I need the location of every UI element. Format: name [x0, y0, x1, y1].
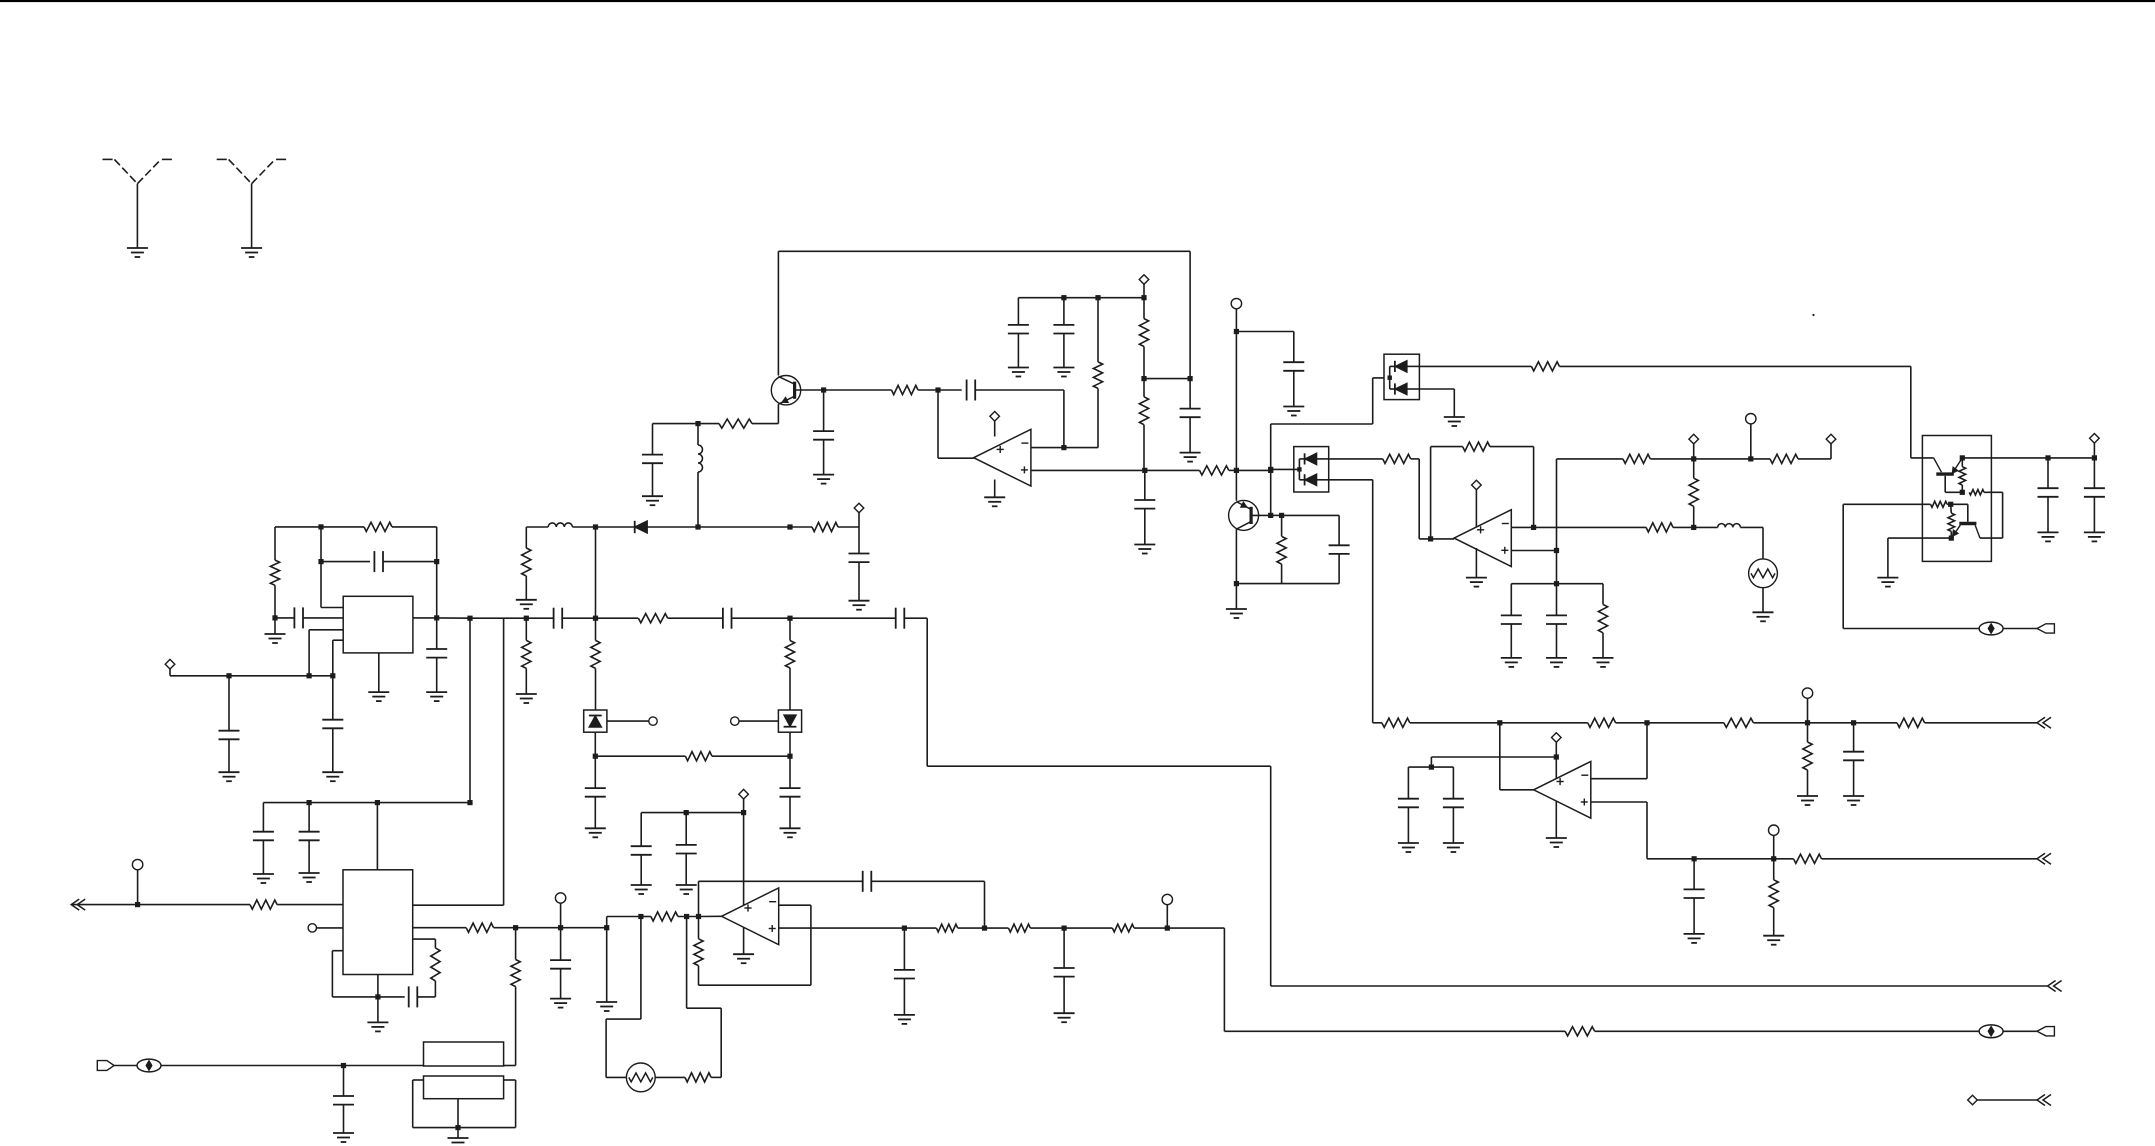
wire 618 seg7 [904, 617, 927, 619]
wire line1 s8 [1854, 722, 1897, 724]
wire u4 top left [275, 526, 321, 528]
junction node U2m [1531, 525, 1536, 530]
wire R790 bot [789, 668, 791, 710]
wire U2p down [1556, 551, 1558, 584]
wire R-RT right [711, 1076, 721, 1078]
IC U7 [343, 870, 413, 975]
wire U1m right [1064, 447, 1098, 449]
wire 470 seg3 [1236, 469, 1270, 471]
wire y424 [1271, 423, 1373, 425]
ground GND-297b [1053, 367, 1074, 369]
ground GND-RT2 [1753, 611, 1774, 613]
wire CL2 top [1693, 859, 1695, 890]
wire u4 top seg [321, 526, 364, 528]
wire TPL2 stem [1773, 835, 1775, 858]
wire 618 seg5 [732, 617, 791, 619]
ground GND-675b [322, 771, 343, 773]
capacitor C-U4c [426, 648, 447, 650]
node flag V-OUT [2090, 434, 2100, 444]
ground GND-812b [676, 884, 697, 886]
wire VD1 bot [594, 732, 596, 756]
resistor R3 [812, 522, 838, 531]
junction node xin [341, 1063, 346, 1068]
wire R-fb1 up [1097, 298, 1099, 362]
junction node 470-1270 [1268, 468, 1273, 473]
ground GND-812a [631, 884, 652, 886]
wire TP927 stem [560, 903, 562, 928]
wire vert 1270 [1270, 424, 1272, 515]
wire U6m bot [699, 984, 811, 986]
wire TP928 stem [1166, 905, 1168, 928]
junction node OUT2 [2092, 455, 2097, 460]
wire C-Q2 top [1338, 515, 1340, 545]
wire 812 drop2 [685, 813, 687, 845]
wire u4 right vert [436, 527, 438, 618]
wire 756 rdrop [789, 756, 791, 788]
wire divider top [1143, 298, 1145, 319]
junction node 675-229 [226, 673, 231, 678]
wire in927 s2 [494, 927, 607, 929]
terminal TP-L1 [1802, 688, 1812, 698]
resistor R-L2 [1794, 854, 1822, 863]
wire U2 gnd stem [1475, 548, 1477, 578]
wire L-E1 down [697, 472, 699, 527]
wire Q2c rail [1236, 583, 1339, 585]
wire line1 s9 [1925, 722, 2037, 724]
capacitor C-E1 [642, 454, 663, 456]
capacitor C-Q2 [1329, 544, 1350, 546]
wire C802b gnd [308, 840, 310, 873]
resistor R-470 [1200, 466, 1229, 475]
junction node u4tl [318, 524, 323, 529]
wire C-Q1 to gnd [823, 440, 825, 475]
wire in seg [678, 916, 699, 918]
ground GND-927 [550, 998, 571, 1000]
wire line4 s2 [1595, 1030, 1979, 1032]
wire 928 seg6 [1134, 927, 1224, 929]
wire emitter left [752, 423, 778, 425]
ground GND-331 [1283, 406, 1304, 408]
junction node Q2b2 [1279, 513, 1284, 518]
boxed diode VD1 [584, 710, 607, 732]
resistor R-L1d [1897, 718, 1925, 727]
resistor R-526b [522, 640, 531, 668]
wire 583 right drop [1602, 584, 1604, 605]
wire line4 s1 [1224, 1030, 1565, 1032]
ground GND-U6 [733, 953, 754, 955]
wire cap561 r [383, 561, 437, 563]
junction node 331 [1234, 329, 1239, 334]
resistor R-595 [591, 640, 600, 668]
ground GND-767a [1398, 842, 1419, 844]
wire N1 down [937, 390, 939, 458]
capacitor C-812b [676, 844, 697, 846]
wire top rail down [1189, 251, 1191, 378]
ground GND-L1a [1797, 795, 1818, 797]
wire rail996 [332, 996, 404, 998]
junction node U6in2 [638, 914, 643, 919]
junction node D1j [593, 524, 598, 529]
resistor R-1693 [1689, 478, 1698, 506]
wire rail297 drop2 [1063, 298, 1065, 325]
node flag VT1 [854, 503, 864, 513]
capacitor C-812a [631, 845, 652, 847]
wire to node N1 [918, 389, 938, 391]
junction node 1190 [1188, 376, 1193, 381]
capacitor C-927 [550, 959, 571, 961]
wire therm drop [1762, 527, 1764, 559]
node flag V-L5 [1968, 1095, 1978, 1105]
capacitor C583a [1501, 614, 1522, 616]
wire C812b gnd [685, 854, 687, 886]
wire divm right [1144, 378, 1190, 380]
ground GND-Q4 [1877, 577, 1898, 579]
wire C756b gnd [789, 797, 791, 829]
wire y366 long [1559, 365, 1910, 367]
capacitor C-U4b [293, 607, 295, 628]
wire 757 down [1430, 757, 1432, 767]
capacitor C-X1 [333, 1095, 354, 1097]
junction node 927-606 [604, 925, 609, 930]
wire u7 out1 [413, 904, 504, 906]
ground GND-ANT2 [241, 247, 262, 249]
wire 812 ldrop [640, 813, 642, 847]
terminal TP-927 [555, 893, 565, 903]
wire 790 r top [789, 618, 791, 640]
wire corner 526 down [525, 527, 527, 548]
wire vert 1372 up [1372, 378, 1374, 424]
wire C583b gnd [1556, 624, 1558, 658]
wire U1 plus [1031, 469, 1145, 471]
junction node u4in [272, 615, 277, 620]
ground GND-297a [1008, 367, 1029, 369]
capacitor C767a [1398, 798, 1419, 800]
wire u4out right [437, 617, 470, 619]
wire 618 seg4 [668, 617, 723, 619]
junction node y1g [455, 1125, 460, 1130]
resistor R-fb1 [1093, 362, 1102, 389]
capacitor C-OUT2 [2084, 487, 2105, 489]
wire R-1693 top [1693, 459, 1695, 478]
ground GND-U4b [368, 691, 389, 693]
wire TP459 stem [1750, 424, 1752, 459]
wire R-Q1e left [698, 423, 719, 425]
wire 927 down [926, 618, 928, 766]
ground GND-L2b [1763, 935, 1784, 937]
wire P1 to plug [2003, 628, 2037, 630]
op-amp U3 [1534, 761, 1591, 818]
resistor R-515 [511, 960, 520, 987]
resistor R-459b [1770, 454, 1798, 463]
wire U2 out [1419, 538, 1454, 540]
resistor R-526 [522, 548, 531, 576]
node flag V297 [1139, 275, 1149, 285]
wire U3 minus [1591, 778, 1647, 780]
wire loopB up [720, 1008, 722, 1077]
wire R-583 gnd [1602, 633, 1604, 658]
wire DD1 bot gnd [1453, 389, 1455, 417]
capacitor C-U4a [373, 551, 375, 572]
wire in seg3 [607, 916, 641, 918]
wire VOUT stem [2093, 443, 2095, 458]
resistor R-L1e [1803, 742, 1812, 770]
wire Cout2 gnd [2093, 497, 2095, 533]
wire pair out [1962, 457, 2048, 459]
wire rail802 [263, 802, 470, 804]
node flag V459a [1689, 434, 1699, 444]
terminal small U7 [308, 924, 316, 932]
wire 515 drop [515, 928, 517, 960]
wire C-E1 gnd [652, 463, 654, 496]
wire V675 stem [169, 669, 171, 676]
wire CX1 gnd [343, 1105, 345, 1133]
wire C527 gnd [858, 562, 860, 601]
junction node L1a [1497, 720, 1502, 725]
resistor R-Q4b [1931, 501, 1948, 507]
wire 996 right [417, 996, 435, 998]
ground GND-L1b [1843, 795, 1864, 797]
wire rail767 [1408, 766, 1453, 768]
dual diode DD2 [1294, 447, 1329, 492]
wire line2 s3 [1774, 858, 1794, 860]
wire D1a to R3 [698, 526, 790, 528]
wire RT to R [655, 1076, 685, 1078]
wire 606 gnd drop [606, 928, 608, 1002]
wire RQ3 top [1961, 458, 1963, 467]
wire C928a top [903, 928, 905, 970]
ground GND-526 [516, 599, 537, 601]
wire TPL1 stem [1807, 698, 1809, 723]
ground GND-756a [585, 827, 606, 829]
wire u7b gnd [377, 997, 379, 1023]
wire rail583 [1511, 583, 1603, 585]
junction node L1c [1805, 720, 1810, 725]
capacitor C297a [1008, 324, 1029, 326]
transistor Q2 [1229, 500, 1259, 530]
ground GND-U1 [984, 496, 1005, 498]
wire U6 in [699, 915, 722, 917]
wire RQ3 bot [1961, 485, 1963, 492]
wire R595 bot [595, 668, 597, 710]
wire 904 s3 [277, 904, 343, 906]
wire DD1 bot out [1419, 388, 1454, 390]
ground GND-802a [253, 873, 274, 875]
wire 470 seg2 [1229, 469, 1237, 471]
wire 675 drop1 [228, 676, 230, 731]
ground GND-928a [894, 1014, 915, 1016]
wire 527 to 618 link [595, 527, 597, 618]
wire RU7 bot [434, 981, 436, 997]
junction node 802-377 [375, 800, 380, 805]
node flag V-675 [165, 659, 175, 669]
junction node 904 [135, 902, 140, 907]
junction node Q4b [1948, 502, 1953, 507]
terminal TP-Q2 [1231, 298, 1241, 308]
junction node Q4e [1949, 536, 1954, 541]
terminal TP-904 [132, 859, 142, 869]
wire 1270 down [1270, 766, 1272, 986]
wire VT1 down [858, 527, 860, 554]
ground GND-E1 [642, 495, 663, 497]
wire fb2 seg [1431, 446, 1463, 448]
terminal TP-928 [1162, 894, 1172, 904]
junction node DD2L [1268, 467, 1273, 472]
wire 583 left drop [1510, 584, 1512, 616]
wire 904 s2 [138, 904, 250, 906]
inline connector P2 [1979, 1025, 2003, 1038]
wire E1 left [653, 423, 699, 425]
junction node L2a [1692, 856, 1697, 861]
wire y766 [927, 765, 1270, 767]
resistor R-Q1b [892, 385, 919, 394]
wire to C-Q1 [823, 390, 825, 431]
ground GND-527 [849, 600, 870, 602]
wire 470 seg [1145, 469, 1200, 471]
junction node E1 [695, 421, 700, 426]
wire C297b gnd [1063, 334, 1065, 368]
wire U6 gnd stem [743, 927, 745, 954]
junction node Q2b [1268, 513, 1273, 518]
node flag V-U1 [990, 412, 1000, 422]
wire line2 s2 [1694, 858, 1774, 860]
wire 527b seg2 [1694, 526, 1718, 528]
junction node OUT1 [2045, 455, 2050, 460]
wire E1 cap drop [652, 424, 654, 455]
resistor R-Q1e [719, 419, 752, 428]
junction node 675-332 [330, 673, 335, 678]
resistor R-RT [685, 1073, 711, 1082]
wire y366 down [1910, 366, 1912, 458]
wire TP stem [1235, 309, 1237, 332]
wire xin s3 [344, 1065, 424, 1067]
wire 503 up [503, 618, 505, 905]
wire u4 gnd pin [378, 653, 380, 692]
wire Cout2 top [2093, 458, 2095, 488]
junction node VU3 [1554, 754, 1559, 759]
junction node U6v1 [684, 914, 689, 919]
ground GND-583b [1546, 657, 1567, 659]
wire fb top2 [871, 880, 984, 882]
terminal TP-L2 [1769, 825, 1779, 835]
wire loopB up2 [686, 917, 688, 1009]
wire Q4 base stub [1967, 504, 1969, 522]
wire Q3 base wire [1945, 491, 1962, 493]
ground GND-X1 [333, 1132, 354, 1134]
capacitor C-OUT1 [2038, 487, 2059, 489]
wire pair in2 [1911, 457, 1934, 459]
plug J1 [2037, 624, 2054, 633]
wire y1 gnd [457, 1128, 459, 1138]
wire Q4b feed down [1842, 504, 1844, 628]
wire line1 s5 [1647, 722, 1724, 724]
wire 675 drop2 [332, 676, 334, 720]
antenna ANT1 [103, 158, 113, 160]
wire fb2 seg2 [1490, 446, 1534, 448]
wire TP904 stem [137, 870, 139, 905]
wire u4 out [413, 617, 437, 619]
connector arrow X1 [2037, 717, 2045, 728]
wire R-Q2 bot [1281, 564, 1283, 584]
capacitor C-675b [322, 719, 343, 721]
wire D1j to diode [596, 526, 635, 528]
capacitor C1190 [1180, 408, 1201, 410]
wire 515 down [515, 987, 517, 1066]
junction node Q3c [1960, 455, 1965, 460]
connector arrow X4 [71, 899, 79, 910]
wire y377 [1373, 377, 1390, 379]
capacitor C-Q1 [813, 430, 834, 432]
resistor R-Q3 [1959, 467, 1966, 485]
wire U2 plus [1511, 550, 1556, 552]
wire RL1e gnd [1807, 770, 1809, 796]
wire u4 pin4 [333, 639, 343, 641]
wire rail675 [170, 675, 333, 677]
IC U4 [343, 596, 413, 653]
wire u4 top seg2 [392, 526, 437, 528]
wire 928 seg [904, 927, 936, 929]
wire line1 s6 [1753, 722, 1807, 724]
wire 527b seg [1673, 526, 1694, 528]
wire 526 r2 top [525, 618, 527, 640]
wire Q2c gnd [1235, 584, 1237, 609]
capacitor C-U7 [408, 986, 410, 1007]
wire y757 [1431, 756, 1556, 758]
capacitor C583b [1546, 614, 1567, 616]
wire RQ4 bot [1950, 531, 1952, 538]
wire U3 out [1500, 789, 1534, 791]
wire fb res top [698, 917, 700, 939]
wire y459 seg5 [1798, 458, 1831, 460]
wire jog up [606, 917, 608, 928]
junction node 618-595 [593, 616, 598, 621]
wire U1 minus [1031, 447, 1064, 449]
diode D1 [634, 521, 636, 533]
connector arrow X3 [2048, 981, 2056, 992]
wire line3 [1271, 985, 2048, 987]
junction node 297-1144 [1141, 295, 1146, 300]
junction node U2fb [1428, 536, 1433, 541]
wire line5 [1977, 1099, 2037, 1101]
wire C812a gnd [640, 855, 642, 885]
wire rail297 left drop [1017, 298, 1019, 325]
wire Q2 base [1251, 514, 1271, 516]
wire fb right down [984, 881, 986, 928]
resistor R-U7 [431, 948, 440, 981]
wire Q4b in [1843, 503, 1930, 505]
capacitor C-618a [553, 608, 555, 629]
connector arrow X5 [2037, 1095, 2045, 1106]
junction node 618-526 [524, 616, 529, 621]
wire line1 s7 [1808, 722, 1854, 724]
ground GND-675a [219, 771, 240, 773]
transistor pair box U5 [1922, 436, 1991, 562]
junction node 470-1236 [1234, 468, 1239, 473]
wire RL1e top [1807, 723, 1809, 742]
inline connector P3 [137, 1059, 161, 1072]
wire line1 s4 [1616, 722, 1647, 724]
junction node 618-790 [787, 616, 792, 621]
wire D1 to E1col [647, 526, 698, 528]
wire 595 r top [595, 618, 597, 640]
junction node 812-686 [684, 810, 689, 815]
wire y1 bot pin [457, 1099, 459, 1128]
ground GND-470 [1134, 544, 1155, 546]
terminal TP-459 [1746, 414, 1756, 424]
wire u4in gnd [274, 618, 276, 634]
transistor Q3 [1936, 472, 1954, 475]
wire VD2 term wire [739, 720, 778, 722]
node flag V459b [1826, 434, 1836, 444]
